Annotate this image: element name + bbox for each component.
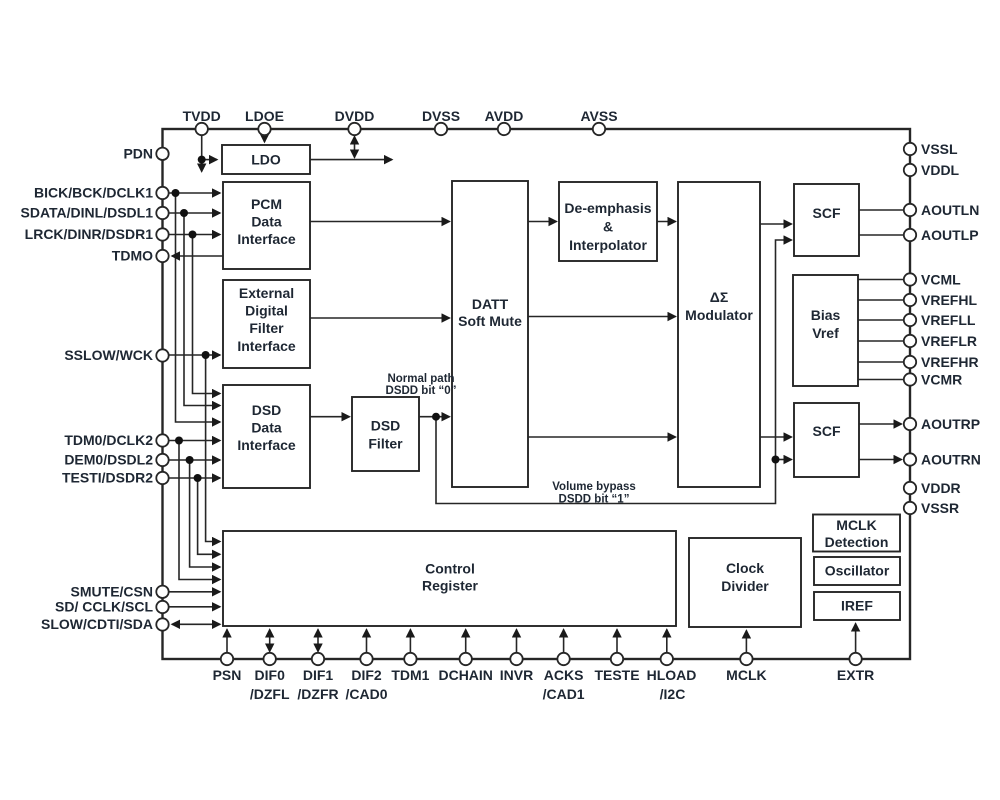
svg-text:SDATA/DINL/DSDL1: SDATA/DINL/DSDL1 bbox=[21, 205, 154, 221]
svg-text:/DZFR: /DZFR bbox=[297, 686, 338, 702]
svg-text:Normal path: Normal path bbox=[387, 373, 454, 385]
svg-text:VREFLR: VREFLR bbox=[921, 333, 977, 349]
svg-text:Clock: Clock bbox=[726, 560, 764, 576]
svg-text:TVDD: TVDD bbox=[183, 108, 221, 124]
svg-text:DCHAIN: DCHAIN bbox=[438, 667, 492, 683]
svg-text:Oscillator: Oscillator bbox=[825, 563, 890, 579]
svg-text:SCF: SCF bbox=[813, 423, 841, 439]
svg-text:PCM: PCM bbox=[251, 196, 282, 212]
svg-text:TESTE: TESTE bbox=[594, 667, 639, 683]
svg-text:SSLOW/WCK: SSLOW/WCK bbox=[64, 347, 153, 363]
svg-text:DSDD bit “1”: DSDD bit “1” bbox=[559, 494, 630, 506]
svg-text:MCLK: MCLK bbox=[726, 667, 766, 683]
svg-text:Divider: Divider bbox=[721, 578, 769, 594]
svg-text:AVSS: AVSS bbox=[580, 108, 617, 124]
svg-text:Interface: Interface bbox=[237, 437, 296, 453]
svg-text:DIF1: DIF1 bbox=[303, 667, 334, 683]
svg-text:PDN: PDN bbox=[123, 145, 153, 161]
svg-text:DVDD: DVDD bbox=[335, 108, 375, 124]
svg-text:INVR: INVR bbox=[500, 667, 533, 683]
svg-text:SMUTE/CSN: SMUTE/CSN bbox=[71, 583, 153, 599]
svg-text:LDO: LDO bbox=[251, 152, 281, 168]
svg-text:&: & bbox=[603, 219, 613, 235]
svg-text:DIF0: DIF0 bbox=[255, 667, 286, 683]
svg-text:DEM0/DSDL2: DEM0/DSDL2 bbox=[64, 452, 153, 468]
svg-text:DATT: DATT bbox=[472, 296, 509, 312]
svg-text:De-emphasis: De-emphasis bbox=[564, 200, 651, 216]
svg-text:ACKS: ACKS bbox=[544, 667, 584, 683]
svg-text:BICK/BCK/DCLK1: BICK/BCK/DCLK1 bbox=[34, 185, 153, 201]
svg-text:EXTR: EXTR bbox=[837, 667, 874, 683]
svg-text:VCML: VCML bbox=[921, 271, 961, 287]
svg-text:DSD: DSD bbox=[371, 418, 401, 434]
svg-text:Modulator: Modulator bbox=[685, 307, 753, 323]
svg-text:Vref: Vref bbox=[812, 325, 839, 341]
svg-text:/I2C: /I2C bbox=[660, 686, 686, 702]
svg-text:TDM1: TDM1 bbox=[391, 667, 429, 683]
svg-text:DIF2: DIF2 bbox=[351, 667, 382, 683]
svg-text:VREFHR: VREFHR bbox=[921, 354, 979, 370]
svg-text:DSDD bit “0”: DSDD bit “0” bbox=[386, 385, 457, 397]
svg-text:VDDR: VDDR bbox=[921, 480, 961, 496]
svg-text:Data: Data bbox=[251, 420, 282, 436]
svg-text:VDDL: VDDL bbox=[921, 162, 960, 178]
svg-text:Interpolator: Interpolator bbox=[569, 237, 647, 253]
svg-text:IREF: IREF bbox=[841, 598, 873, 614]
svg-text:Control: Control bbox=[425, 561, 475, 577]
svg-text:HLOAD: HLOAD bbox=[647, 667, 697, 683]
svg-text:VSSL: VSSL bbox=[921, 141, 958, 157]
svg-text:DSD: DSD bbox=[252, 402, 282, 418]
svg-text:LRCK/DINR/DSDR1: LRCK/DINR/DSDR1 bbox=[25, 226, 154, 242]
svg-text:SD/ CCLK/SCL: SD/ CCLK/SCL bbox=[55, 599, 153, 615]
svg-text:Filter: Filter bbox=[368, 436, 403, 452]
svg-text:VREFHL: VREFHL bbox=[921, 292, 977, 308]
svg-text:VSSR: VSSR bbox=[921, 500, 959, 516]
svg-text:/DZFL: /DZFL bbox=[250, 686, 290, 702]
svg-text:Interface: Interface bbox=[237, 338, 296, 354]
svg-text:VCMR: VCMR bbox=[921, 371, 962, 387]
svg-text:AOUTLP: AOUTLP bbox=[921, 227, 979, 243]
svg-text:TESTI/DSDR2: TESTI/DSDR2 bbox=[62, 470, 153, 486]
svg-text:VREFLL: VREFLL bbox=[921, 312, 976, 328]
svg-text:AOUTLN: AOUTLN bbox=[921, 202, 979, 218]
svg-text:TDMO: TDMO bbox=[112, 248, 153, 264]
svg-text:Soft Mute: Soft Mute bbox=[458, 313, 522, 329]
svg-text:Detection: Detection bbox=[825, 534, 889, 550]
svg-text:Volume bypass: Volume bypass bbox=[552, 481, 636, 493]
svg-text:LDOE: LDOE bbox=[245, 108, 284, 124]
svg-text:External: External bbox=[239, 285, 294, 301]
svg-text:AVDD: AVDD bbox=[485, 108, 524, 124]
svg-text:/CAD1: /CAD1 bbox=[543, 686, 585, 702]
svg-text:Bias: Bias bbox=[811, 307, 841, 323]
svg-text:SCF: SCF bbox=[813, 205, 841, 221]
svg-text:AOUTRP: AOUTRP bbox=[921, 416, 980, 432]
svg-text:PSN: PSN bbox=[213, 667, 242, 683]
svg-text:ΔΣ: ΔΣ bbox=[710, 289, 728, 305]
svg-text:/CAD0: /CAD0 bbox=[345, 686, 387, 702]
svg-text:Interface: Interface bbox=[237, 231, 296, 247]
svg-text:AOUTRN: AOUTRN bbox=[921, 451, 981, 467]
svg-text:Digital: Digital bbox=[245, 303, 288, 319]
svg-text:DVSS: DVSS bbox=[422, 108, 460, 124]
svg-text:TDM0/DCLK2: TDM0/DCLK2 bbox=[64, 432, 153, 448]
svg-text:Register: Register bbox=[422, 578, 479, 594]
svg-text:Filter: Filter bbox=[249, 320, 284, 336]
svg-text:MCLK: MCLK bbox=[836, 517, 876, 533]
svg-text:Data: Data bbox=[251, 214, 282, 230]
svg-text:SLOW/CDTI/SDA: SLOW/CDTI/SDA bbox=[41, 616, 153, 632]
